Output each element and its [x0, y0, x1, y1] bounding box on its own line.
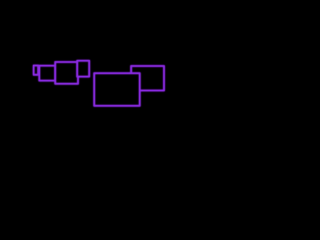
box C (center) [55, 62, 78, 84]
box B [39, 66, 55, 81]
box A (small left) [34, 66, 39, 75]
box E (top right) [131, 66, 164, 91]
box F (tall, over C) [77, 61, 89, 77]
box D (large bottom, on top) [94, 73, 140, 106]
